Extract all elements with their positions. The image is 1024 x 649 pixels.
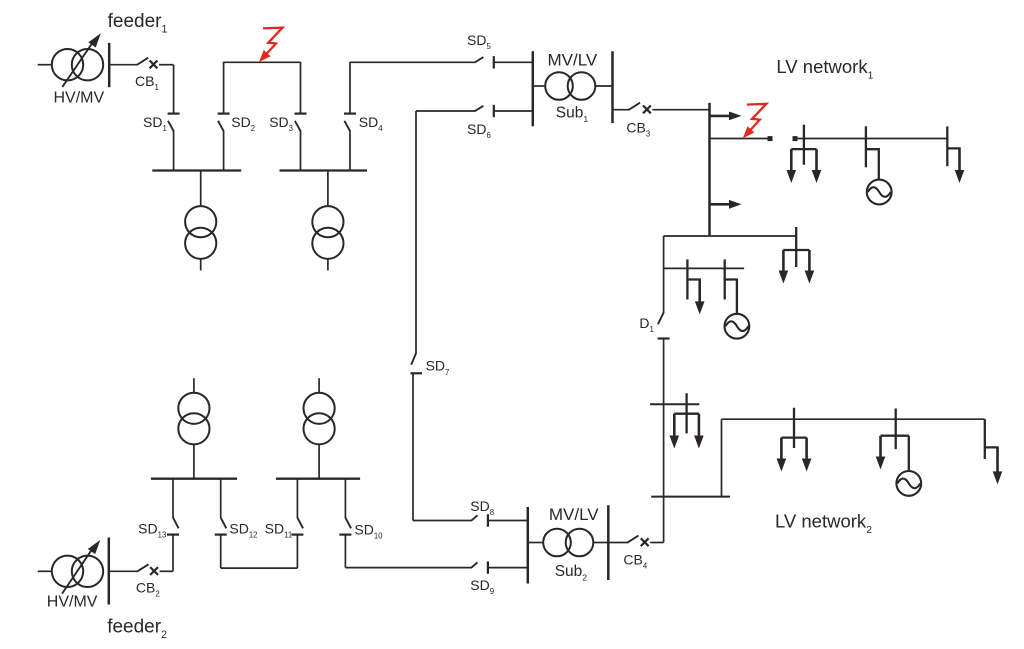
svg-text:SD13: SD13 (138, 521, 166, 540)
transformer HV/MV feeder2 (52, 556, 103, 587)
svg-text:MV/LV: MV/LV (549, 505, 599, 524)
power-flow arrow (710, 200, 742, 209)
svg-text:SD10: SD10 (354, 521, 383, 540)
busbar bus1 (152, 169, 241, 171)
busbar sub2-right (607, 505, 610, 580)
load (670, 393, 704, 448)
svg-text:D1: D1 (639, 315, 653, 334)
svg-text:SD6: SD6 (467, 121, 491, 140)
svg-text:SD11: SD11 (265, 521, 293, 540)
svg-text:feeder1: feeder1 (108, 11, 168, 36)
disconnector SD4 (344, 62, 356, 171)
svg-text:SD5: SD5 (467, 32, 491, 51)
load (779, 227, 815, 284)
svg-text:CB2: CB2 (136, 579, 160, 598)
transformer T1 (185, 171, 216, 271)
transformer T4 (304, 378, 335, 479)
transformer T2 (312, 171, 343, 271)
svg-text:SD9: SD9 (470, 577, 494, 596)
disconnector SD11 (291, 479, 303, 568)
svg-text:LV network1: LV network1 (776, 56, 873, 82)
disconnector D1 (658, 313, 670, 339)
wire (38, 64, 53, 66)
node open-point (793, 136, 798, 141)
wire (663, 236, 665, 313)
busbar bus2 (280, 169, 368, 171)
svg-text:HV/MV: HV/MV (54, 90, 105, 107)
svg-text:HV/MV: HV/MV (47, 594, 98, 611)
busbar feeder2 (108, 538, 111, 605)
svg-text:SD8: SD8 (470, 498, 494, 517)
svg-text:SD12: SD12 (229, 521, 257, 540)
disconnector SD3 (295, 62, 307, 171)
svg-text:SD3: SD3 (269, 114, 293, 133)
transformer Sub1 MV/LV (533, 72, 613, 100)
wire (722, 419, 985, 496)
busbar tap2 (651, 496, 730, 498)
generator load (876, 409, 921, 496)
svg-text:MV/LV: MV/LV (548, 50, 598, 69)
breaker CB2 (109, 564, 173, 575)
load (947, 126, 964, 183)
breaker CB4 (608, 536, 663, 547)
disconnector SD10 (339, 479, 351, 568)
load (687, 259, 704, 314)
disconnector SD9 (345, 561, 527, 573)
power-flow arrow (710, 112, 742, 121)
load (985, 419, 1003, 484)
wire (797, 138, 947, 140)
wire (38, 570, 52, 572)
svg-text:CB1: CB1 (135, 73, 159, 92)
disconnector SD5 (475, 56, 533, 68)
busbar sub1-left (532, 51, 535, 126)
disconnector SD12 (215, 479, 227, 568)
generator (866, 126, 892, 204)
node open-point (768, 136, 773, 141)
disconnector SD6 (416, 105, 533, 117)
wire (224, 61, 301, 63)
regulation arrow (62, 540, 100, 594)
load (777, 408, 812, 472)
wire (663, 339, 665, 543)
wire (221, 567, 298, 569)
busbar sub1-right (611, 51, 614, 123)
busbar LV1 (708, 103, 711, 236)
transformer T3 (178, 378, 209, 479)
breaker CB3 (613, 103, 710, 114)
svg-text:Sub2: Sub2 (555, 563, 588, 583)
wire (664, 267, 745, 269)
wire (415, 111, 417, 354)
busbar bus3 (151, 478, 237, 480)
disconnector SD1 (168, 65, 180, 171)
disconnector SD8 (413, 514, 528, 526)
busbar bus4 (276, 478, 360, 480)
transformer Sub2 MV/LV (528, 529, 609, 557)
busbar tap1 (650, 403, 699, 405)
svg-text:Sub1: Sub1 (556, 104, 589, 124)
transformer HV/MV feeder1 (52, 49, 103, 80)
wire (710, 138, 769, 140)
disconnector SD2 (218, 62, 230, 171)
svg-text:CB3: CB3 (626, 119, 650, 138)
generator (725, 259, 750, 338)
wire (664, 235, 797, 237)
breaker CB1 (109, 58, 173, 69)
svg-text:feeder2: feeder2 (107, 616, 167, 641)
fault arrow (259, 28, 283, 62)
load (787, 125, 822, 183)
fault arrow (743, 104, 767, 138)
svg-text:CB4: CB4 (623, 551, 647, 570)
busbar sub2-left (527, 507, 530, 584)
disconnector SD13 (167, 479, 179, 572)
svg-text:SD7: SD7 (426, 358, 450, 377)
svg-text:LV network2: LV network2 (775, 511, 872, 537)
svg-text:SD4: SD4 (359, 114, 383, 133)
busbar feeder1 (108, 43, 111, 87)
wire (350, 61, 475, 63)
svg-text:SD1: SD1 (143, 114, 167, 133)
disconnector SD7 (411, 353, 422, 520)
svg-text:SD2: SD2 (231, 114, 255, 133)
regulation arrow (62, 33, 101, 87)
